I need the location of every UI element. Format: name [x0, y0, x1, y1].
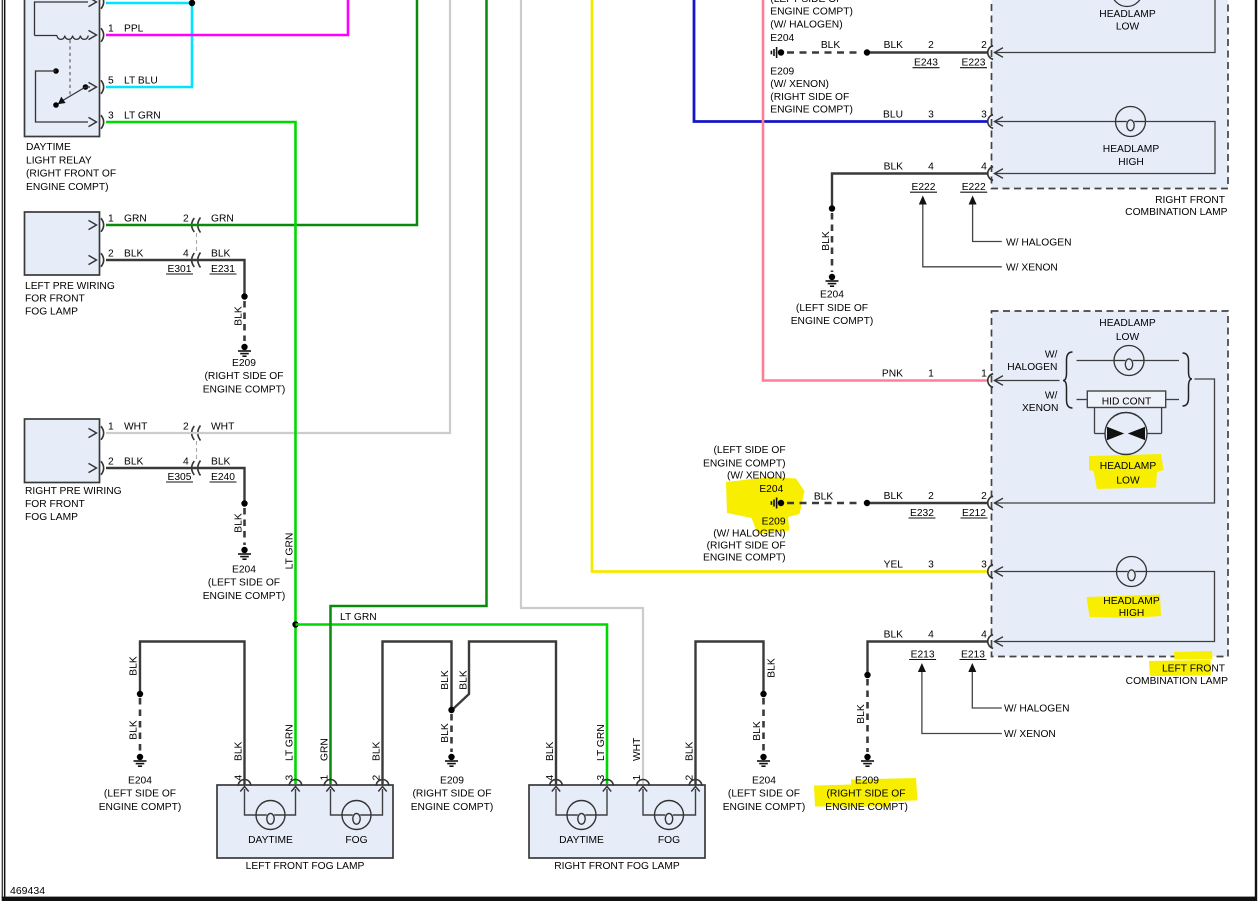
svg-text:(LEFT SIDE OF: (LEFT SIDE OF [728, 789, 800, 800]
left fog pin 1 connector [320, 738, 337, 791]
svg-text:(LEFT SIDE OF: (LEFT SIDE OF [770, 0, 842, 5]
svg-text:4: 4 [183, 456, 189, 467]
callout W/ HALOGEN arrow to E222 [969, 196, 1072, 249]
svg-text:E204: E204 [752, 776, 776, 787]
right fog pin 4 connector [545, 741, 562, 791]
svg-text:HALOGEN: HALOGEN [1007, 362, 1057, 373]
svg-text:XENON: XENON [1022, 403, 1058, 414]
svg-text:BLK: BLK [233, 306, 244, 326]
wire BLU to right combination lamp pin 3 [694, 0, 988, 122]
svg-text:BLK: BLK [459, 670, 470, 690]
svg-text:ENGINE COMPT): ENGINE COMPT) [203, 384, 286, 395]
svg-text:E209: E209 [762, 517, 786, 528]
relay pin 1 connector [89, 23, 144, 42]
ground E204 left side engine compt [791, 274, 874, 327]
wire labels BLK 2 2 E243 E223 [884, 40, 988, 68]
svg-text:ENGINE COMPT): ENGINE COMPT) [791, 316, 874, 327]
svg-text:RIGHT FRONT: RIGHT FRONT [1155, 195, 1226, 206]
svg-text:HEADLAMP: HEADLAMP [1099, 318, 1156, 329]
svg-text:(LEFT SIDE OF: (LEFT SIDE OF [104, 789, 176, 800]
left pre wiring label [25, 281, 115, 318]
ground E204 bottom right [723, 754, 806, 813]
svg-text:(LEFT SIDE OF: (LEFT SIDE OF [713, 445, 785, 456]
left fog daytime bulb [245, 789, 296, 846]
wire labels PNK 1 1 [882, 368, 987, 379]
node BLK junction [864, 49, 870, 55]
ground symbol E204/E209 top [771, 47, 784, 58]
svg-text:COMBINATION LAMP: COMBINATION LAMP [1125, 207, 1227, 218]
wire BLK to ground E204 [106, 468, 248, 545]
wire labels BLK 4 4 E222 E222 [884, 161, 988, 193]
right pre wiring pin 1 [89, 421, 149, 440]
svg-text:E222: E222 [912, 182, 936, 193]
svg-text:E209: E209 [770, 67, 794, 78]
right comb lamp pin 2 connector [988, 46, 993, 60]
right pre wiring label [25, 486, 122, 523]
svg-text:LEFT FRONT FOG LAMP: LEFT FRONT FOG LAMP [246, 861, 365, 872]
svg-text:WHT: WHT [632, 737, 643, 761]
svg-text:LT GRN: LT GRN [124, 110, 161, 121]
callout W/ XENON arrow to E213 [918, 663, 1056, 740]
svg-text:E209: E209 [232, 358, 256, 369]
node BLK junction [864, 500, 870, 506]
svg-text:(RIGHT SIDE OF: (RIGHT SIDE OF [827, 789, 906, 800]
svg-text:5: 5 [108, 75, 114, 86]
wire LT GRN from relay pin 3 [106, 122, 296, 784]
svg-text:1: 1 [632, 775, 643, 781]
svg-text:(RIGHT SIDE OF: (RIGHT SIDE OF [707, 541, 786, 552]
svg-text:2: 2 [183, 213, 189, 224]
svg-text:BLK: BLK [129, 720, 140, 740]
svg-text:2: 2 [928, 491, 934, 502]
svg-text:RIGHT PRE WIRING: RIGHT PRE WIRING [25, 486, 122, 497]
svg-text:FOR FRONT: FOR FRONT [25, 499, 86, 510]
svg-text:ENGINE COMPT): ENGINE COMPT) [703, 459, 786, 470]
highlight E209 right side [814, 778, 918, 807]
svg-text:BLK: BLK [129, 656, 140, 676]
svg-text:1: 1 [108, 421, 114, 432]
relay DAYTIME LIGHT RELAY box [25, 0, 100, 137]
svg-text:3: 3 [108, 110, 114, 121]
svg-text:GRN: GRN [211, 213, 234, 224]
wire BLK right comb lamp pin 4 to ground E204 [829, 174, 988, 273]
wire labels BLK 2 2 E232 E212 [884, 491, 988, 519]
svg-text:ENGINE COMPT): ENGINE COMPT) [411, 802, 494, 813]
svg-text:ENGINE COMPT): ENGINE COMPT) [26, 182, 109, 193]
svg-text:E243: E243 [914, 58, 938, 69]
svg-text:LEFT FRONT: LEFT FRONT [1162, 664, 1226, 675]
wire LT GRN branch to right fog lamp [296, 625, 608, 785]
svg-text:E204: E204 [232, 565, 256, 576]
inline connector pin 4 BLK E305/E240 [166, 456, 237, 483]
svg-text:E204: E204 [128, 776, 152, 787]
brace left [1063, 352, 1073, 408]
svg-text:ENGINE COMPT): ENGINE COMPT) [723, 802, 806, 813]
svg-text:BLK: BLK [234, 741, 245, 761]
highlight E204 E209 block [726, 477, 805, 534]
svg-text:ENGINE COMPT): ENGINE COMPT) [703, 553, 786, 564]
right comb lamp label [1125, 195, 1227, 218]
right fog fog bulb [643, 789, 696, 846]
wire GRN vertical to left fog lamp [331, 0, 487, 784]
svg-text:HIGH: HIGH [1118, 157, 1144, 168]
wire BLK left fog pin 2 to ground E209 [383, 642, 452, 786]
svg-text:BLK: BLK [440, 723, 451, 743]
svg-text:4: 4 [928, 629, 934, 640]
page border right [1255, 0, 1257, 901]
wire BLK left fog pin 4 to ground E204 [137, 642, 245, 786]
svg-text:(W/ HALOGEN): (W/ HALOGEN) [770, 20, 842, 31]
svg-text:3: 3 [285, 775, 296, 781]
svg-text:FOR FRONT: FOR FRONT [25, 294, 86, 305]
svg-text:E209: E209 [440, 776, 464, 787]
label W/ XENON [1022, 391, 1058, 415]
right pre wiring pin 2 [89, 456, 144, 475]
svg-text:E223: E223 [962, 58, 986, 69]
svg-text:2: 2 [685, 775, 696, 781]
svg-text:LOW: LOW [1116, 476, 1140, 487]
svg-text:HEADLAMP: HEADLAMP [1103, 144, 1160, 155]
svg-text:HEADLAMP: HEADLAMP [1103, 596, 1160, 607]
svg-text:3: 3 [981, 559, 987, 570]
svg-text:4: 4 [234, 775, 245, 781]
wire BLK to right combination lamp pin 2 [870, 51, 988, 53]
svg-text:1: 1 [108, 23, 114, 34]
headlamp low halogen/xenon branch [996, 380, 1060, 382]
svg-text:(RIGHT SIDE OF: (RIGHT SIDE OF [770, 92, 849, 103]
svg-text:COMBINATION LAMP: COMBINATION LAMP [1126, 676, 1228, 687]
svg-text:1: 1 [981, 368, 987, 379]
svg-text:LT GRN: LT GRN [285, 533, 296, 570]
svg-text:BLK: BLK [211, 456, 231, 467]
left comb lamp label [1126, 664, 1228, 688]
lamp LEFT FRONT FOG LAMP box [217, 785, 393, 858]
headlamp low halogen bulb [1077, 318, 1180, 376]
wire WHT vertical to right fog lamp [521, 0, 643, 784]
svg-text:BLK: BLK [821, 231, 832, 251]
svg-text:WHT: WHT [211, 421, 235, 432]
svg-text:3: 3 [928, 559, 934, 570]
svg-text:BLK: BLK [884, 629, 904, 640]
left fog pin 3 connector [285, 724, 302, 791]
ground text block left side engine compt w/ xenon [703, 445, 786, 564]
connector dashed link [196, 441, 198, 460]
svg-text:LIGHT RELAY: LIGHT RELAY [26, 155, 92, 166]
callout W/ HALOGEN arrow to E213 [968, 663, 1069, 715]
svg-text:(W/ XENON): (W/ XENON) [770, 79, 829, 90]
svg-text:ENGINE COMPT): ENGINE COMPT) [770, 7, 853, 18]
svg-text:2: 2 [928, 40, 934, 51]
svg-text:1: 1 [928, 368, 934, 379]
svg-text:4: 4 [183, 248, 189, 259]
svg-text:FOG: FOG [658, 835, 680, 846]
svg-text:E209: E209 [855, 776, 879, 787]
svg-text:4: 4 [928, 161, 934, 172]
ground E209 bottom middle [411, 754, 494, 813]
svg-text:BLK: BLK [884, 491, 904, 502]
svg-text:BLK: BLK [884, 40, 904, 51]
svg-text:HIGH: HIGH [1119, 608, 1145, 619]
highlight LEFT FRONT [1149, 651, 1213, 676]
inline connector pin 4 BLK [166, 248, 237, 275]
wire labels YEL 3 3 [884, 559, 988, 570]
connector dashed link [196, 233, 198, 252]
svg-text:BLK: BLK [372, 741, 383, 761]
svg-text:3: 3 [596, 775, 607, 781]
ground E204 left side [203, 547, 286, 602]
left fog fog bulb [331, 789, 383, 846]
svg-text:FOG LAMP: FOG LAMP [25, 512, 78, 523]
svg-text:E232: E232 [910, 508, 934, 519]
ground E204 bottom left [99, 754, 182, 813]
connector LEFT PRE WIRING FOR FRONT FOG LAMP box [25, 212, 100, 275]
svg-text:ENGINE COMPT): ENGINE COMPT) [99, 802, 182, 813]
svg-text:BLK: BLK [884, 161, 904, 172]
relay coil [35, 1, 89, 39]
headlamp high bulb [996, 107, 1215, 174]
svg-text:E212: E212 [962, 508, 986, 519]
wire PNK to left combination lamp pin 1 [763, 0, 988, 381]
svg-text:BLK: BLK [211, 248, 231, 259]
svg-text:ENGINE COMPT): ENGINE COMPT) [203, 591, 286, 602]
left comb lamp pin 4 connector [988, 635, 993, 649]
svg-text:2: 2 [108, 248, 114, 259]
svg-text:HEADLAMP: HEADLAMP [1099, 9, 1156, 20]
svg-text:W/ XENON: W/ XENON [1006, 263, 1058, 274]
right fog pin 2 connector [685, 741, 702, 791]
relay pin 3 connector [89, 110, 161, 129]
svg-text:DAYTIME: DAYTIME [559, 835, 604, 846]
ground E209 bottom far right highlighted [825, 754, 908, 813]
svg-text:E222: E222 [962, 182, 986, 193]
svg-text:469434: 469434 [10, 885, 45, 897]
svg-text:E301: E301 [168, 264, 192, 275]
label W/ HALOGEN [1007, 350, 1057, 374]
svg-text:W/: W/ [1045, 391, 1058, 402]
svg-text:GRN: GRN [124, 213, 147, 224]
svg-text:1: 1 [108, 213, 114, 224]
ground symbol E204/E209 middle [778, 500, 784, 506]
right fog pin 3 connector [596, 724, 613, 791]
svg-text:ENGINE COMPT): ENGINE COMPT) [825, 802, 908, 813]
svg-text:LOW: LOW [1116, 22, 1140, 33]
svg-text:W/ XENON: W/ XENON [1004, 729, 1056, 740]
svg-text:LT GRN: LT GRN [596, 724, 607, 761]
page border bottom [2, 897, 1257, 901]
left pre wiring pin 1 [89, 213, 147, 232]
lamp RIGHT FRONT COMBINATION LAMP box [992, 0, 1229, 189]
svg-text:1: 1 [320, 775, 331, 781]
svg-text:E213: E213 [911, 649, 935, 660]
svg-text:BLK: BLK [124, 456, 144, 467]
svg-text:4: 4 [545, 775, 556, 781]
svg-text:FOG LAMP: FOG LAMP [25, 307, 78, 318]
right comb lamp pin 4 connector [988, 167, 993, 181]
lamp RIGHT FRONT FOG LAMP box [529, 785, 705, 858]
wire BLK left comb lamp pin 4 to ground E209 [864, 642, 987, 753]
svg-text:PNK: PNK [882, 368, 903, 379]
svg-text:BLK: BLK [124, 248, 144, 259]
wire PPL magenta [106, 0, 348, 35]
left fog pin 4 connector [234, 741, 251, 791]
node BLK junction E209 [448, 707, 454, 752]
svg-text:DAYTIME: DAYTIME [26, 142, 71, 153]
right comb lamp pin 3 connector [988, 115, 993, 129]
svg-text:ENGINE COMPT): ENGINE COMPT) [770, 105, 853, 116]
svg-text:(W/ XENON): (W/ XENON) [727, 471, 786, 482]
left fog pin 2 connector [372, 741, 389, 791]
svg-text:(RIGHT FRONT OF: (RIGHT FRONT OF [26, 169, 116, 180]
svg-text:2: 2 [981, 40, 987, 51]
wire labels BLU 3 3 [883, 109, 987, 120]
svg-text:WHT: WHT [124, 421, 148, 432]
svg-text:LT GRN: LT GRN [285, 724, 296, 761]
relay pin 5 connector [89, 75, 158, 94]
wire BLK to left combination lamp pin 2 [870, 502, 988, 504]
svg-text:E204: E204 [820, 289, 844, 300]
svg-text:(RIGHT SIDE OF: (RIGHT SIDE OF [205, 371, 284, 382]
right fog pin 1 connector [632, 737, 649, 792]
wire BLK to ground E209 [106, 260, 248, 341]
headlamp low bulb (cut off at top) [996, 0, 1215, 53]
wire BLK dashed from ground [787, 502, 862, 505]
callout W/ XENON arrow to E222 [919, 196, 1058, 274]
svg-text:3: 3 [981, 109, 987, 120]
HID xenon bulb [1095, 408, 1162, 455]
svg-text:2: 2 [372, 775, 383, 781]
ground E209 right side [203, 344, 286, 396]
relay pin top connector [89, 0, 104, 9]
svg-text:FOG: FOG [345, 835, 367, 846]
left pre wiring pin 2 [89, 248, 144, 267]
svg-text:2: 2 [981, 491, 987, 502]
left comb lamp pin 3 connector [988, 565, 993, 579]
page border left [2, 0, 6, 898]
right fog daytime bulb [556, 789, 607, 846]
svg-text:GRN: GRN [320, 738, 331, 761]
svg-text:4: 4 [981, 161, 987, 172]
svg-text:LOW: LOW [1116, 332, 1140, 343]
svg-text:BLK: BLK [545, 741, 556, 761]
svg-text:YEL: YEL [884, 559, 904, 570]
wire cyan relay top pin to pin 5 [106, 0, 195, 87]
svg-text:E204: E204 [770, 33, 794, 44]
left comb lamp pin 1 connector [988, 374, 993, 388]
svg-text:LT BLU: LT BLU [124, 75, 158, 86]
svg-text:W/: W/ [1045, 350, 1058, 361]
HID CONT module [1077, 391, 1180, 408]
svg-text:4: 4 [981, 629, 987, 640]
svg-text:BLK: BLK [856, 704, 867, 724]
svg-text:3: 3 [928, 109, 934, 120]
svg-text:HEADLAMP: HEADLAMP [1100, 461, 1157, 472]
label HEADLAMP LOW highlighted [1100, 461, 1157, 487]
highlight HEADLAMP HIGH [1087, 595, 1162, 619]
svg-text:E231: E231 [211, 264, 235, 275]
svg-text:BLK: BLK [814, 492, 834, 503]
svg-text:BLK: BLK [685, 741, 696, 761]
svg-text:W/ HALOGEN: W/ HALOGEN [1004, 704, 1070, 715]
inline connector E301/E231 pin 2 GRN [183, 213, 234, 232]
svg-text:(LEFT SIDE OF: (LEFT SIDE OF [796, 303, 868, 314]
svg-text:E213: E213 [961, 649, 985, 660]
svg-text:(RIGHT SIDE OF: (RIGHT SIDE OF [413, 789, 492, 800]
svg-text:(W/ HALOGEN): (W/ HALOGEN) [713, 529, 785, 540]
inline connector pin 2 WHT [183, 421, 235, 440]
svg-text:E305: E305 [168, 472, 192, 483]
svg-text:BLK: BLK [440, 670, 451, 690]
left comb lamp pin 2 connector [988, 496, 993, 510]
wire BLK right fog pin 4 to ground E209 [453, 642, 556, 786]
wire from brace to pin 2 loop [996, 379, 1215, 503]
wire BLK dashed from ground [787, 51, 862, 54]
svg-text:BLK: BLK [233, 513, 244, 533]
lamp LEFT FRONT COMBINATION LAMP box [992, 311, 1229, 657]
svg-text:2: 2 [108, 456, 114, 467]
svg-text:PPL: PPL [124, 23, 144, 34]
svg-text:DAYTIME: DAYTIME [248, 835, 293, 846]
svg-text:E204: E204 [759, 484, 783, 495]
svg-text:2: 2 [183, 421, 189, 432]
svg-text:RIGHT FRONT FOG LAMP: RIGHT FRONT FOG LAMP [554, 861, 680, 872]
svg-text:BLU: BLU [883, 109, 903, 120]
wire WHT to top edge [106, 0, 450, 433]
svg-text:BLK: BLK [821, 40, 841, 51]
svg-text:(LEFT SIDE OF: (LEFT SIDE OF [208, 578, 280, 589]
svg-text:LEFT PRE WIRING: LEFT PRE WIRING [25, 281, 115, 292]
wire YEL to left combination lamp pin 3 [592, 0, 988, 572]
wire GRN to top edge [106, 0, 417, 225]
svg-text:BLK: BLK [752, 721, 763, 741]
svg-text:HID CONT: HID CONT [1102, 396, 1152, 407]
headlamp high bulb [996, 557, 1215, 642]
relay switch [36, 68, 91, 122]
svg-text:E240: E240 [211, 472, 235, 483]
highlight HEADLAMP LOW [1089, 454, 1164, 489]
svg-text:LT GRN: LT GRN [340, 612, 377, 623]
relay label [26, 142, 116, 193]
node LT GRN junction [292, 621, 298, 627]
svg-text:BLK: BLK [767, 658, 778, 678]
wire labels BLK 4 4 E213 E213 [884, 629, 988, 660]
connector RIGHT PRE WIRING FOR FRONT FOG LAMP box [25, 419, 100, 483]
brace right [1183, 353, 1193, 406]
ground text block left/right side engine compt [770, 0, 853, 116]
relay actuator dashed link [69, 40, 71, 95]
svg-text:W/ HALOGEN: W/ HALOGEN [1006, 237, 1072, 248]
wire BLK right fog pin 2 to ground E204 [696, 642, 767, 786]
